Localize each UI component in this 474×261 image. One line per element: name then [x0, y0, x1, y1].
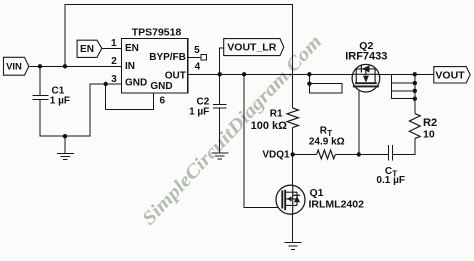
svg-text:EN: EN — [125, 43, 139, 54]
svg-text:VOUT_LR: VOUT_LR — [227, 42, 276, 54]
svg-text:5: 5 — [194, 45, 200, 56]
svg-text:6: 6 — [160, 96, 166, 107]
svg-text:OUT: OUT — [165, 70, 186, 81]
svg-text:EN: EN — [80, 44, 94, 55]
svg-text:VDQ1: VDQ1 — [262, 150, 290, 161]
svg-text:TPS79518: TPS79518 — [132, 27, 182, 39]
svg-text:10: 10 — [423, 128, 435, 140]
svg-text:GND: GND — [150, 81, 172, 92]
svg-text:IRF7433: IRF7433 — [345, 50, 387, 62]
svg-text:IRLML2402: IRLML2402 — [309, 198, 365, 210]
svg-text:1 µF: 1 µF — [50, 95, 70, 106]
svg-text:1 µF: 1 µF — [189, 107, 209, 118]
svg-text:100 kΩ: 100 kΩ — [251, 120, 288, 132]
svg-text:VOUT: VOUT — [435, 69, 465, 81]
svg-text:BYP/FB: BYP/FB — [149, 52, 186, 63]
svg-text:4: 4 — [195, 62, 201, 73]
svg-text:0.1 µF: 0.1 µF — [376, 175, 405, 186]
svg-text:GND: GND — [125, 77, 147, 88]
svg-text:3: 3 — [111, 74, 117, 85]
svg-text:R1: R1 — [270, 109, 283, 120]
svg-text:1: 1 — [111, 38, 117, 49]
svg-text:VIN: VIN — [6, 62, 22, 73]
svg-text:24.9 kΩ: 24.9 kΩ — [309, 136, 345, 147]
svg-text:IN: IN — [125, 61, 135, 72]
svg-text:2: 2 — [111, 56, 117, 67]
